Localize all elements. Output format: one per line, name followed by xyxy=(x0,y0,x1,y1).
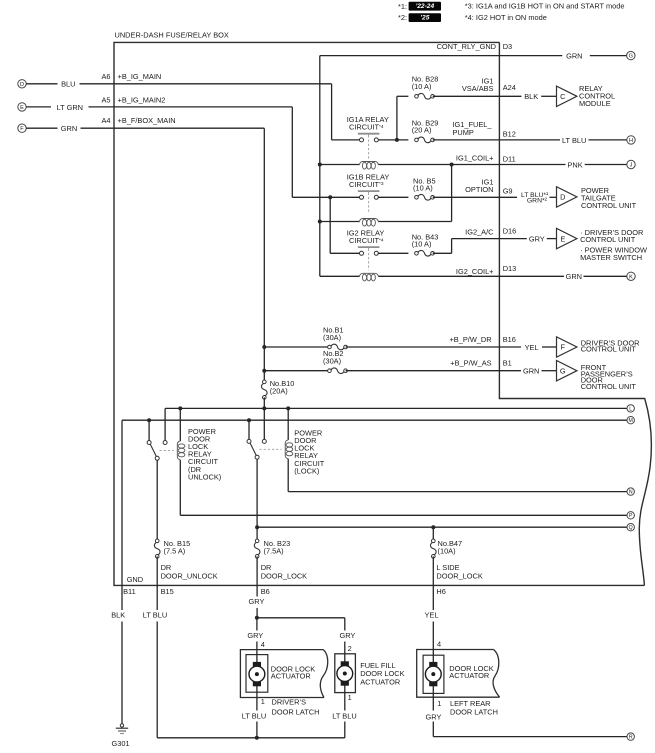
svg-text:1: 1 xyxy=(261,697,265,706)
svg-text:VSA/ABS: VSA/ABS xyxy=(462,84,494,93)
wire GRY to driver actuator xyxy=(256,618,258,631)
wire color label LT BLU*1 / GRN*2 xyxy=(499,196,517,198)
wire Q to fuse B47 xyxy=(432,527,434,541)
fuse No. B15 (7.5 A) xyxy=(155,539,159,543)
svg-text:LT BLU: LT BLU xyxy=(242,711,266,720)
svg-text:MODULE: MODULE xyxy=(579,99,611,108)
wire IG2_COIL+ row xyxy=(320,275,360,277)
svg-text:K: K xyxy=(629,274,633,280)
svg-text:DOOR_LOCK: DOOR_LOCK xyxy=(436,571,482,580)
junction right contact on M xyxy=(247,418,251,422)
svg-text:L: L xyxy=(629,406,632,412)
fuse No. B43 (10 A) xyxy=(415,252,419,256)
svg-text:CONTROL UNIT: CONTROL UNIT xyxy=(581,201,637,210)
fuel fill door lock actuator box xyxy=(335,654,356,693)
svg-text:B1: B1 xyxy=(503,359,512,368)
wire color label GRN xyxy=(499,370,521,372)
relay IG1B contact xyxy=(358,190,380,192)
svg-text:F: F xyxy=(20,126,24,132)
connector N xyxy=(627,488,634,495)
svg-text:J: J xyxy=(630,163,633,169)
connector L xyxy=(627,405,634,412)
svg-text:CONTROL UNIT: CONTROL UNIT xyxy=(581,382,637,391)
wire IG1B output xyxy=(378,196,408,198)
wire IG2 contact feed xyxy=(330,252,359,254)
wire LOCK arm to fuse B23 xyxy=(256,459,258,541)
connector E xyxy=(18,103,26,111)
svg-text:(30A): (30A) xyxy=(323,333,341,342)
connector H xyxy=(627,136,635,144)
svg-text:R: R xyxy=(629,735,633,741)
wire M bus (ground) xyxy=(122,419,627,421)
svg-text:UNLOCK): UNLOCK) xyxy=(188,472,221,481)
svg-text:GND: GND xyxy=(127,575,143,584)
svg-text:BLK: BLK xyxy=(111,611,125,620)
svg-text:BLK: BLK xyxy=(524,92,538,101)
svg-text:4: 4 xyxy=(437,640,441,649)
ground G301 xyxy=(120,724,123,727)
connector F xyxy=(18,124,26,132)
svg-text:(10 A): (10 A) xyxy=(412,240,432,249)
junction left coil on L xyxy=(178,406,182,410)
svg-text:GRN: GRN xyxy=(566,51,582,60)
svg-text:GRN: GRN xyxy=(523,367,539,376)
connector Q xyxy=(627,524,634,531)
connector K xyxy=(627,272,635,280)
svg-text:+B_P/W_AS: +B_P/W_AS xyxy=(450,359,491,368)
wire GRY branch to fuel fill actuator xyxy=(257,617,345,619)
svg-text:G301: G301 xyxy=(112,739,130,748)
svg-text:F: F xyxy=(561,343,566,352)
svg-text:(20 A): (20 A) xyxy=(412,126,432,135)
svg-text:D: D xyxy=(20,82,24,88)
svg-text:C: C xyxy=(560,92,566,101)
svg-text:A6: A6 xyxy=(101,72,110,81)
fuse No. B5 (10 A) xyxy=(415,196,419,200)
fuse No. B28 (10 A) xyxy=(415,95,419,99)
svg-text:(7.5 A): (7.5 A) xyxy=(164,546,186,555)
wire F GRN to pin A4 xyxy=(26,127,57,129)
svg-text:P: P xyxy=(629,513,633,519)
coil DR UNLOCK xyxy=(179,408,181,441)
svg-text:D16: D16 xyxy=(503,227,517,236)
wire color label PNK xyxy=(499,164,565,166)
dashed link IG2 contact to coil xyxy=(368,249,370,271)
coil IG1A xyxy=(360,162,379,165)
svg-text:MASTER SWITCH: MASTER SWITCH xyxy=(580,253,642,262)
svg-text:PNK: PNK xyxy=(567,160,582,169)
wire B47 to pin H6 xyxy=(432,556,434,585)
dashed link DR UNLOCK xyxy=(160,449,174,451)
relay LOCK contact xyxy=(248,420,250,439)
wire color label GRY xyxy=(499,238,526,240)
coil IG1B xyxy=(360,219,379,222)
relay IG1A contact xyxy=(358,133,380,135)
svg-text:A5: A5 xyxy=(101,95,110,104)
svg-text:GRN: GRN xyxy=(566,272,582,281)
svg-text:PUMP: PUMP xyxy=(453,128,474,137)
connector P xyxy=(627,512,634,519)
svg-text:GRN*²: GRN*² xyxy=(527,197,548,204)
svg-text:Q: Q xyxy=(629,525,633,531)
junction B28 branch xyxy=(395,138,399,142)
wire GRY to connector R xyxy=(433,736,627,738)
coil IG2 xyxy=(360,273,379,276)
motor (driver actuator) xyxy=(253,662,261,667)
svg-text:IG2_COIL+: IG2_COIL+ xyxy=(456,267,494,276)
svg-text:1: 1 xyxy=(348,693,352,702)
wire through fuel fill actuator xyxy=(344,654,346,663)
junction driver latch return xyxy=(255,736,259,740)
svg-text:G9: G9 xyxy=(503,187,513,196)
connector G xyxy=(627,51,635,59)
svg-text:GRY: GRY xyxy=(426,712,442,721)
control unit G (front passenger door control unit) xyxy=(557,361,577,381)
fuse No.B1 (30A) row B16 xyxy=(264,346,328,348)
svg-text:UNDER-DASH FUSE/RELAY BOX: UNDER-DASH FUSE/RELAY BOX xyxy=(115,31,229,40)
svg-text:’22-24: ’22-24 xyxy=(415,3,434,10)
junction IG2 branch xyxy=(328,195,332,199)
wire L bus xyxy=(165,407,627,409)
svg-text:GRY: GRY xyxy=(529,235,545,244)
wire through left rear actuator xyxy=(432,650,434,664)
junction left contact on M xyxy=(147,418,151,422)
relay DR UNLOCK contact xyxy=(148,420,150,440)
svg-text:DOOR LATCH: DOOR LATCH xyxy=(450,708,498,717)
svg-text:B6: B6 xyxy=(261,587,270,596)
svg-text:CONTROL UNIT: CONTROL UNIT xyxy=(581,345,637,354)
under-dash fuse/relay box outline xyxy=(114,42,651,585)
junction B2 tap xyxy=(262,369,266,373)
svg-text:*2:: *2: xyxy=(398,13,407,22)
svg-text:B11: B11 xyxy=(123,587,136,596)
junction bus to IG1B coil xyxy=(318,220,322,224)
wire IG1_COIL+ row xyxy=(320,164,360,166)
wire B5 to pin G9 xyxy=(433,196,500,198)
svg-text:DRIVER’S: DRIVER’S xyxy=(272,697,307,706)
control unit E (driver door / power window) xyxy=(557,228,577,248)
junction right coil on L xyxy=(286,406,290,410)
svg-text:LT BLU: LT BLU xyxy=(562,136,586,145)
badge '25 xyxy=(409,13,441,22)
junction IG1B coil tie xyxy=(450,163,454,167)
svg-text:LT GRN: LT GRN xyxy=(57,103,83,112)
connector R xyxy=(627,733,634,740)
wire IG1B coil row xyxy=(320,221,360,223)
svg-text:A4: A4 xyxy=(101,116,110,125)
svg-text:DOOR_UNLOCK: DOOR_UNLOCK xyxy=(161,571,218,580)
svg-text:2: 2 xyxy=(348,644,352,653)
dashed link IG1A contact to coil xyxy=(368,135,370,158)
svg-text:BLU: BLU xyxy=(61,80,75,89)
svg-text:D3: D3 xyxy=(503,42,512,51)
svg-text:A24: A24 xyxy=(503,83,516,92)
svg-text:+B_P/W_DR: +B_P/W_DR xyxy=(449,335,491,344)
svg-text:(10A): (10A) xyxy=(438,546,456,555)
wire GRY from pin B6 xyxy=(256,585,258,596)
coil LOCK xyxy=(287,408,289,440)
svg-text:G: G xyxy=(560,366,566,375)
svg-text:(7.5A): (7.5A) xyxy=(264,546,284,555)
junction B10 on L xyxy=(262,406,266,410)
svg-text:(LOCK): (LOCK) xyxy=(294,466,319,475)
wire +B_IG_MAIN2 drop to IG1B contact xyxy=(291,107,293,197)
svg-text:ACTUATOR: ACTUATOR xyxy=(271,671,311,680)
wire B15 to pin xyxy=(156,556,158,585)
svg-text:*1:: *1: xyxy=(398,2,407,11)
wire to connector G xyxy=(590,55,627,57)
wire P line xyxy=(180,514,627,516)
fuse No. B29 (20 A) xyxy=(415,138,419,142)
control unit F (driver door control unit) xyxy=(557,337,577,357)
wire color label LT BLU xyxy=(499,139,560,141)
svg-text:B15: B15 xyxy=(161,587,174,596)
svg-text:ACTUATOR: ACTUATOR xyxy=(360,677,400,686)
wire color label YEL xyxy=(499,346,521,348)
svg-text:1: 1 xyxy=(437,699,441,708)
wire YEL from pin H6 xyxy=(432,585,434,610)
wire LT BLU from pin B15 xyxy=(156,585,158,610)
wire B43 up to pin D16 xyxy=(433,252,452,254)
dashed link LOCK xyxy=(259,448,281,450)
svg-text:G: G xyxy=(629,54,633,60)
svg-text:YEL: YEL xyxy=(525,343,539,352)
junction bus to IG1A coil xyxy=(318,163,322,167)
junction GRY split xyxy=(255,616,259,620)
svg-text:ACTUATOR: ACTUATOR xyxy=(449,671,489,680)
door lock actuator (left rear) box xyxy=(417,650,500,698)
svg-text:N: N xyxy=(629,490,633,496)
svg-text:+B_IG_MAIN2: +B_IG_MAIN2 xyxy=(118,95,166,104)
svg-text:(20A): (20A) xyxy=(270,387,288,396)
svg-text:CONT_RLY_GND: CONT_RLY_GND xyxy=(437,42,496,51)
junction Q tap xyxy=(255,525,259,529)
wire B10 output to L bus and LOCK relay contact xyxy=(263,397,265,441)
svg-text:D: D xyxy=(560,193,565,202)
svg-text:DOOR_LOCK: DOOR_LOCK xyxy=(261,571,307,580)
wire B28 to pin A24 xyxy=(433,95,500,97)
fuse No. B23 (7.5A) xyxy=(255,539,259,543)
svg-text:GRY: GRY xyxy=(249,597,265,606)
svg-text:IG2_A/C: IG2_A/C xyxy=(465,228,494,237)
svg-text:+B_F/BOX_MAIN: +B_F/BOX_MAIN xyxy=(118,116,176,125)
wire IG1A output xyxy=(378,139,408,141)
dashed link IG1B contact to coil xyxy=(368,193,370,213)
wire through driver actuator xyxy=(256,650,258,663)
svg-text:*4: IG2 HOT in ON mode: *4: IG2 HOT in ON mode xyxy=(465,13,547,22)
svg-text:CONTROL UNIT: CONTROL UNIT xyxy=(580,235,636,244)
svg-text:(10 A): (10 A) xyxy=(413,184,433,193)
wire color label BLK xyxy=(499,95,521,97)
connector M xyxy=(627,417,634,424)
wire D BLU to pin A6 xyxy=(26,83,57,85)
wire BLK to ground xyxy=(121,585,123,610)
svg-text:B16: B16 xyxy=(503,335,516,344)
wire +B_F/BOX_MAIN bus xyxy=(263,128,265,382)
svg-text:LT BLU: LT BLU xyxy=(332,711,356,720)
svg-text:CIRCUIT*3: CIRCUIT*3 xyxy=(349,180,384,189)
svg-text:H: H xyxy=(629,138,633,144)
svg-text:DOOR LATCH: DOOR LATCH xyxy=(272,707,320,716)
svg-text:GRY: GRY xyxy=(339,631,355,640)
svg-text:D11: D11 xyxy=(503,155,516,164)
svg-text:YEL: YEL xyxy=(425,611,439,620)
wire IG2 output xyxy=(378,252,408,254)
wire color label GRN xyxy=(499,275,564,277)
connector J xyxy=(627,160,635,168)
svg-text:(10 A): (10 A) xyxy=(412,82,432,91)
svg-text:*3: IG1A and IG1B HOT in ON an: *3: IG1A and IG1B HOT in ON and START mo… xyxy=(465,2,625,11)
motor (left rear actuator) xyxy=(429,662,437,667)
relay IG2 contact xyxy=(358,246,380,248)
wire +B_IG_MAIN drop to IG1A contact xyxy=(331,84,333,140)
wire E LT GRN to pin A5 xyxy=(26,106,51,108)
svg-text:B12: B12 xyxy=(503,130,516,139)
door lock actuator (driver) box xyxy=(240,650,327,698)
wire N line xyxy=(288,491,627,493)
svg-text:OPTION: OPTION xyxy=(465,185,493,194)
fuse No.B10 (20A) vertical xyxy=(263,380,267,384)
svg-text:CIRCUIT*4: CIRCUIT*4 xyxy=(349,123,384,132)
wire DR UNLOCK arm to fuse B15 xyxy=(156,460,158,541)
svg-text:IG1_COIL+: IG1_COIL+ xyxy=(456,154,494,163)
control unit D (power tailgate) xyxy=(557,187,577,207)
control unit C (relay control module) xyxy=(557,86,577,106)
svg-text:4: 4 xyxy=(261,640,265,649)
svg-text:D13: D13 xyxy=(503,264,517,273)
wire Q line xyxy=(257,526,627,528)
svg-text:LT BLU: LT BLU xyxy=(143,611,167,620)
svg-text:’25: ’25 xyxy=(420,14,429,21)
svg-text:E: E xyxy=(560,234,565,243)
svg-text:M: M xyxy=(629,418,633,424)
fuse No.B47 (10A) xyxy=(432,539,436,543)
svg-text:GRN: GRN xyxy=(61,124,77,133)
motor (fuel fill actuator) xyxy=(341,661,349,666)
svg-text:E: E xyxy=(20,105,24,111)
wire LT BLU bottom bus xyxy=(157,737,345,739)
junction B1 tap xyxy=(262,345,266,349)
svg-text:H6: H6 xyxy=(436,587,445,596)
connector D xyxy=(18,80,26,88)
fuse No.B2 (30A) row B1 xyxy=(264,370,328,372)
junction B47 tap xyxy=(431,525,435,529)
svg-text:+B_IG_MAIN: +B_IG_MAIN xyxy=(118,72,162,81)
wire B23 to pin xyxy=(256,556,258,585)
wire B29 to pin B12 xyxy=(433,139,500,141)
svg-text:CIRCUIT*4: CIRCUIT*4 xyxy=(349,236,384,245)
svg-text:(30A): (30A) xyxy=(323,356,341,365)
wire CONT_RLY_GND bus xyxy=(320,55,563,57)
badge '22-24 xyxy=(409,2,441,11)
